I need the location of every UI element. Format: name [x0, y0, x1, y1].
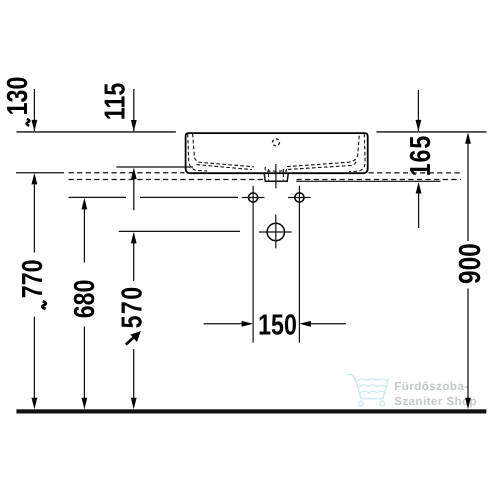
dim 115 upper line + arrow [133, 89, 135, 121]
dim 115 lower outside arrow + tail [131, 168, 137, 180]
svg-text:165: 165 [405, 135, 437, 177]
svg-text:570: 570 [117, 285, 149, 328]
svg-text:Fürdőszoba-: Fürdőszoba- [394, 380, 468, 393]
drain outlet circle [267, 223, 284, 240]
tap hole dashed circle [273, 139, 280, 146]
drain fitting [264, 174, 288, 182]
150 extension line right (through hole) [298, 186, 300, 343]
node: line at 680 level [69, 196, 127, 198]
wire: top reference line left segment [16, 131, 176, 133]
washbasin outer body [186, 133, 368, 173]
dim 570 vertical line with arrows [131, 232, 137, 244]
wire: dashed tap level line D1 [16, 172, 64, 174]
basin lower floor left dashed [197, 165, 253, 170]
150 extension line left (through hole) [252, 186, 254, 343]
watermark cart icon [347, 374, 388, 406]
node: line at 570 level [119, 230, 240, 232]
svg-text:900: 900 [453, 243, 487, 284]
fixing hole right [295, 193, 304, 202]
basin upper floor right + inner wall dashed [287, 134, 359, 167]
basin left inner wall + upper floor dashed [193, 134, 254, 167]
floor line [16, 409, 486, 413]
dim ~770 vertical line with arrows [32, 173, 38, 185]
dim ~130 upper line + arrow [33, 89, 35, 121]
basin lower floor right dashed [288, 162, 356, 170]
basin drain recess dashed [265, 167, 286, 171]
svg-text:680: 680 [69, 280, 101, 319]
drain pipe dashed [268, 169, 270, 180]
dim 900 vertical line with arrows [465, 132, 471, 144]
570 slope arrow [126, 336, 135, 344]
watermark waves [358, 379, 387, 393]
basin left outer wall dashed [188, 134, 207, 171]
drain center line upper [275, 164, 277, 188]
dim 165 lower outside arrow + tail [416, 182, 422, 194]
wire: top reference line right segment [376, 131, 486, 133]
basin right outer wall dashed [349, 134, 365, 172]
svg-text:Szaniter Shop: Szaniter Shop [394, 395, 477, 408]
svg-text:130: 130 [2, 77, 34, 116]
svg-text:150: 150 [258, 310, 297, 342]
dim 150 arrows [204, 323, 242, 325]
fixing hole left [249, 193, 258, 202]
wire: dashed line D2 [69, 179, 264, 181]
node: line at 165 below rim (right) [296, 180, 440, 182]
svg-text:770: 770 [17, 259, 49, 298]
node: line at 115 below rim (left) [116, 166, 193, 168]
dim 165 upper line + arrow [417, 90, 419, 121]
svg-text:115: 115 [100, 83, 132, 120]
dim 680 vertical line with arrows [82, 198, 88, 210]
